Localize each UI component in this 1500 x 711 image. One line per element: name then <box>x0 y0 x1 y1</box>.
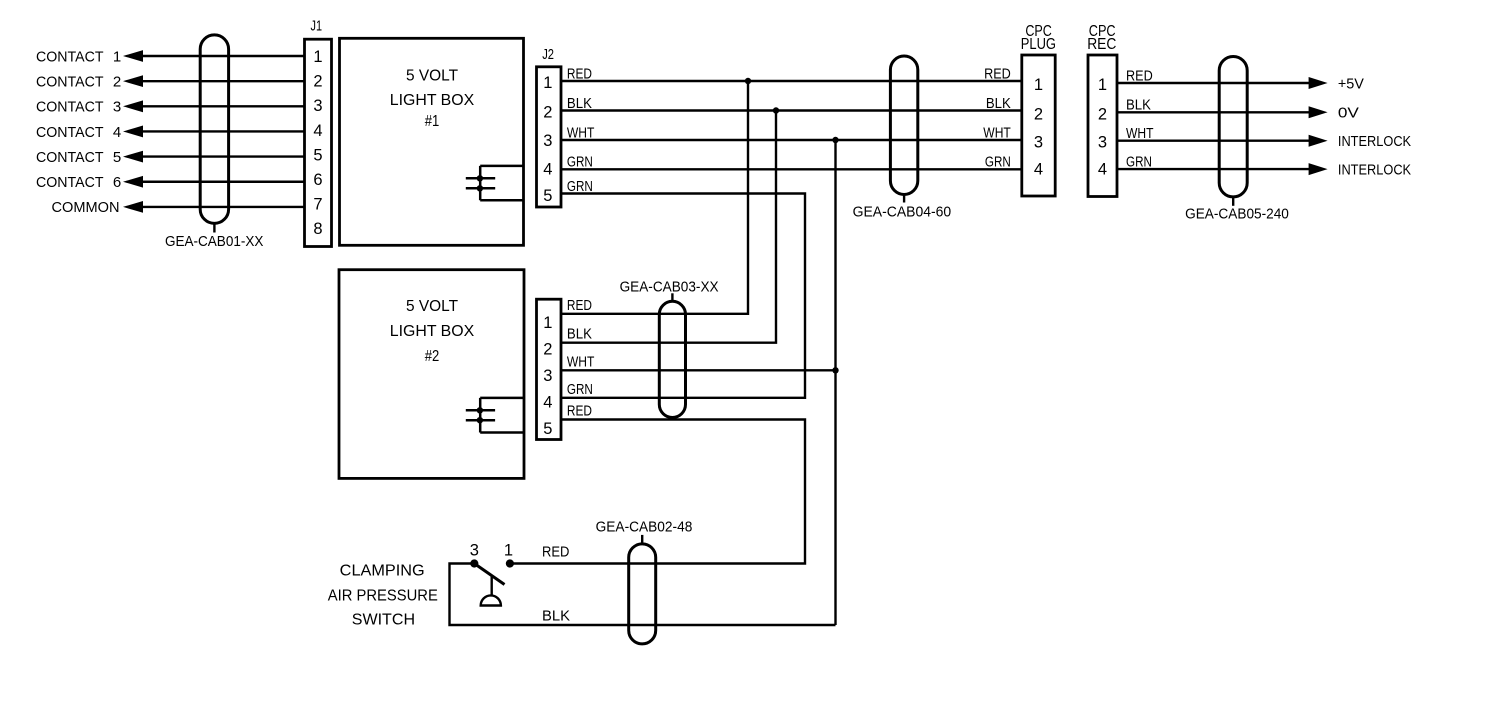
cable GEA-CAB01-XX oval <box>200 35 228 224</box>
5 volt light box #2 body <box>339 270 524 479</box>
svg-text:1: 1 <box>543 74 552 92</box>
cable GEA-CAB03-XX stem <box>671 293 673 301</box>
svg-text:CONTACT: CONTACT <box>36 99 104 116</box>
svg-text:GEA-CAB02-48: GEA-CAB02-48 <box>596 519 693 536</box>
cable GEA-CAB03-XX oval <box>659 301 685 417</box>
svg-text:#1: #1 <box>425 113 440 130</box>
wire WHT J2#2-3 <box>561 369 836 371</box>
svg-text:1: 1 <box>543 314 552 332</box>
svg-text:5 VOLT: 5 VOLT <box>406 298 459 315</box>
arrowhead contact wire 1 <box>123 50 143 62</box>
wire WHT vertical branch to switch <box>834 140 836 625</box>
wire CPC REC pin 4 out <box>1117 168 1310 170</box>
svg-text:1: 1 <box>504 542 513 560</box>
svg-text:RED: RED <box>984 65 1011 82</box>
switch actuator stem <box>491 577 493 596</box>
svg-text:GEA-CAB03-XX: GEA-CAB03-XX <box>620 279 719 296</box>
junction WHT at light box #2 <box>832 367 838 373</box>
svg-text:RED: RED <box>567 297 592 314</box>
wire BLK J2#1-2 to CPC PLUG 2 <box>561 109 1022 111</box>
svg-text:BLK: BLK <box>542 607 570 624</box>
wire RED J2#2-5 to switch pin 1 <box>510 420 805 564</box>
svg-text:7: 7 <box>313 196 322 214</box>
svg-text:CLAMPING: CLAMPING <box>340 562 425 579</box>
svg-text:CONTACT: CONTACT <box>36 149 104 166</box>
svg-text:GRN: GRN <box>985 154 1011 171</box>
svg-text:2: 2 <box>1098 106 1107 124</box>
wire CPC REC pin 2 out <box>1117 111 1310 113</box>
svg-text:SWITCH: SWITCH <box>352 612 415 629</box>
svg-text:2: 2 <box>543 104 552 122</box>
connector J1 body <box>305 39 332 246</box>
cable GEA-CAB04-60 stem <box>903 195 905 203</box>
switch actuator dome <box>481 595 501 605</box>
svg-text:CONTACT: CONTACT <box>36 73 104 90</box>
svg-text:0V: 0V <box>1338 105 1359 122</box>
arrowhead contact wire 5 <box>123 151 143 163</box>
svg-text:1: 1 <box>113 48 121 65</box>
svg-text:WHT: WHT <box>983 124 1011 141</box>
svg-text:J2: J2 <box>542 46 554 63</box>
svg-text:J1: J1 <box>311 18 323 35</box>
switch contact 1 <box>506 559 514 567</box>
svg-text:3: 3 <box>313 97 322 115</box>
cable GEA-CAB02-48 oval <box>629 544 656 644</box>
lamp symbol box #2 <box>480 398 524 433</box>
svg-text:LIGHT BOX: LIGHT BOX <box>390 323 475 340</box>
svg-text:1: 1 <box>313 48 322 66</box>
svg-text:GEA-CAB04-60: GEA-CAB04-60 <box>853 203 952 220</box>
switch frame and wire BLK to WHT branch <box>450 564 836 626</box>
svg-text:CONTACT: CONTACT <box>36 124 104 141</box>
switch lever <box>474 564 504 585</box>
svg-text:2: 2 <box>1034 106 1043 124</box>
svg-text:5: 5 <box>313 146 322 164</box>
svg-text:CONTACT: CONTACT <box>36 48 104 65</box>
svg-text:BLK: BLK <box>567 326 592 343</box>
svg-text:RED: RED <box>567 403 592 420</box>
svg-text:4: 4 <box>1098 161 1107 179</box>
arrowhead INTERLOCK <box>1309 135 1328 147</box>
wire J1 pin 5 to contact <box>140 155 306 157</box>
arrowhead 0V <box>1309 106 1328 118</box>
wire CPC REC pin 1 out <box>1117 82 1310 84</box>
wire RED J2#2-1 branch <box>561 81 748 314</box>
svg-text:INTERLOCK: INTERLOCK <box>1338 161 1411 178</box>
svg-text:8: 8 <box>313 220 322 238</box>
svg-text:4: 4 <box>543 394 552 412</box>
junction WHT top <box>832 137 838 143</box>
svg-text:#2: #2 <box>425 348 440 365</box>
junction RED <box>745 78 751 84</box>
wire J1 pin 7 to contact <box>140 206 306 208</box>
svg-text:3: 3 <box>113 99 121 116</box>
svg-text:6: 6 <box>113 174 121 191</box>
svg-text:2: 2 <box>313 73 322 91</box>
svg-text:+5V: +5V <box>1338 75 1364 92</box>
svg-text:5: 5 <box>543 187 552 205</box>
svg-text:2: 2 <box>543 341 552 359</box>
5 volt light box #1 body <box>340 38 524 245</box>
svg-text:5 VOLT: 5 VOLT <box>406 67 459 84</box>
svg-text:3: 3 <box>543 132 552 150</box>
connector CPC PLUG body <box>1022 55 1055 196</box>
wire CPC REC pin 3 out <box>1117 139 1310 141</box>
svg-text:CONTACT: CONTACT <box>36 174 104 191</box>
connector J2 light box #2 body <box>537 299 562 439</box>
cable GEA-CAB02-48 stem <box>641 535 643 544</box>
cable GEA-CAB01-XX stem <box>213 223 215 232</box>
wire J1 pin 4 to contact <box>140 130 306 132</box>
svg-text:3: 3 <box>470 542 479 560</box>
arrowhead contact wire 6 <box>123 176 143 188</box>
svg-text:3: 3 <box>543 367 552 385</box>
arrowhead contact wire 7 <box>123 201 143 213</box>
cable GEA-CAB04-60 oval <box>890 56 917 195</box>
svg-text:RED: RED <box>542 543 570 560</box>
wire J1 pin 1 to contact <box>140 55 306 57</box>
svg-text:1: 1 <box>1098 76 1107 94</box>
svg-text:5: 5 <box>543 420 552 438</box>
lamp symbol box #1 <box>480 166 523 200</box>
svg-text:BLK: BLK <box>986 95 1011 112</box>
svg-text:3: 3 <box>1034 134 1043 152</box>
cable GEA-CAB05-240 oval <box>1219 57 1247 197</box>
arrowhead contact wire 3 <box>123 100 143 112</box>
svg-text:AIR PRESSURE: AIR PRESSURE <box>328 587 438 604</box>
arrowhead +5V <box>1309 77 1328 89</box>
wire J1 pin 3 to contact <box>140 105 306 107</box>
connector J2 light box #1 body <box>537 67 562 207</box>
svg-text:REC: REC <box>1087 36 1116 53</box>
svg-text:6: 6 <box>313 171 322 189</box>
wire GRN J2#1-4 to CPC PLUG 4 <box>561 168 1022 170</box>
svg-text:GEA-CAB01-XX: GEA-CAB01-XX <box>165 233 264 250</box>
svg-text:GRN: GRN <box>567 381 593 398</box>
arrowhead contact wire 2 <box>123 75 143 87</box>
junction BLK <box>773 107 779 113</box>
wire RED J2#1-1 to CPC PLUG 1 <box>561 80 1022 82</box>
wire J1 pin 6 to contact <box>140 181 306 183</box>
svg-text:3: 3 <box>1098 134 1107 152</box>
svg-text:LIGHT BOX: LIGHT BOX <box>390 92 475 109</box>
wire J1 pin 2 to contact <box>140 80 306 82</box>
cable GEA-CAB05-240 stem <box>1232 197 1234 206</box>
svg-text:4: 4 <box>1034 161 1043 179</box>
svg-text:4: 4 <box>313 122 322 140</box>
svg-text:GEA-CAB05-240: GEA-CAB05-240 <box>1185 206 1289 223</box>
arrowhead INTERLOCK <box>1309 163 1328 175</box>
arrowhead contact wire 4 <box>123 126 143 138</box>
svg-text:WHT: WHT <box>567 353 595 370</box>
switch contact 3 <box>470 559 478 567</box>
svg-text:1: 1 <box>1034 76 1043 94</box>
svg-text:INTERLOCK: INTERLOCK <box>1338 133 1411 150</box>
svg-text:PLUG: PLUG <box>1021 36 1056 53</box>
svg-text:2: 2 <box>113 73 121 90</box>
wire GRN J2#1-5 to J2#2-4 <box>561 194 805 398</box>
svg-text:4: 4 <box>113 124 121 141</box>
connector CPC REC body <box>1088 55 1117 197</box>
svg-text:5: 5 <box>113 149 121 166</box>
wire BLK J2#2-2 branch <box>561 111 776 343</box>
svg-text:COMMON: COMMON <box>52 199 120 216</box>
svg-text:4: 4 <box>543 161 552 179</box>
wire WHT J2#1-3 to CPC PLUG 3 <box>561 139 1022 141</box>
